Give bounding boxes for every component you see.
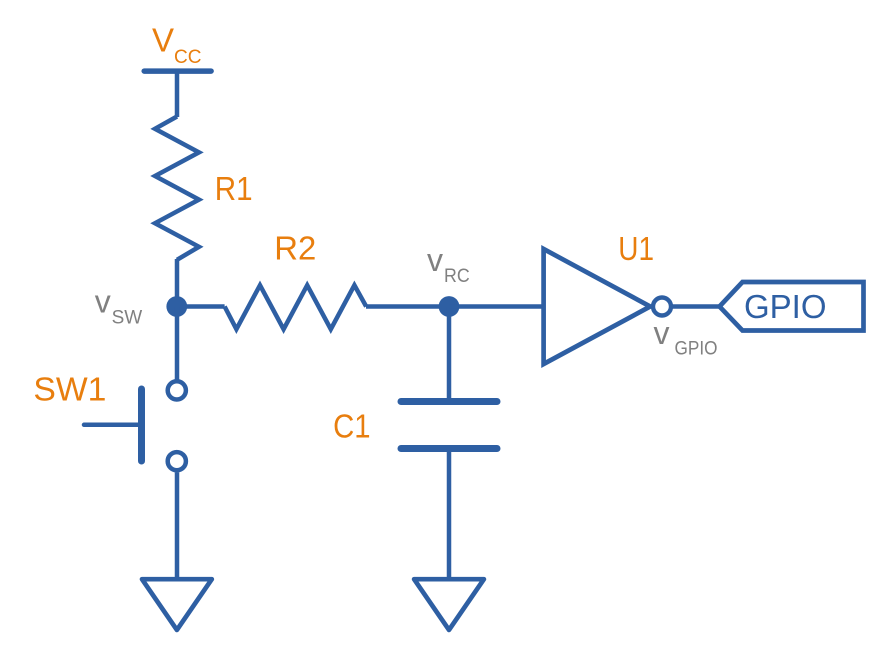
svg-text:U1: U1 (618, 230, 654, 267)
buffer U1 output bubble (653, 298, 671, 316)
node v_RC junction dot (439, 296, 460, 317)
resistor R1 (155, 117, 199, 260)
svg-text:RC: RC (444, 266, 470, 287)
label node v_GPIO (654, 315, 718, 360)
wire R1 to node v_SW (175, 259, 180, 307)
label node v_RC (427, 242, 470, 287)
wire capacitor C1 to ground (447, 448, 452, 578)
wire switch SW1 to ground (175, 473, 180, 579)
switch SW1 actuator bar (138, 389, 145, 461)
svg-text:v: v (95, 284, 111, 320)
wire node v_SW to switch SW1 (175, 307, 180, 380)
label Vcc (152, 21, 201, 68)
switch SW1 bottom contact (168, 452, 186, 470)
switch SW1 stem (84, 423, 138, 428)
capacitor C1 top plate (401, 398, 497, 405)
svg-text:R2: R2 (274, 229, 316, 266)
svg-text:v: v (654, 315, 670, 351)
node v_SW junction dot (166, 296, 187, 317)
svg-text:SW1: SW1 (33, 371, 106, 408)
svg-text:V: V (152, 21, 174, 58)
wire Vcc to R1 (175, 71, 180, 117)
svg-text:C1: C1 (333, 407, 370, 444)
capacitor C1 bottom plate (401, 445, 497, 452)
wire R2 to node v_RC (366, 304, 449, 309)
GPIO flag (720, 282, 864, 331)
svg-text:R1: R1 (215, 170, 253, 207)
ground under C1 (414, 579, 484, 630)
label node v_SW (95, 284, 142, 329)
svg-text:GPIO: GPIO (744, 288, 827, 325)
wire node v_RC to buffer U1 (449, 304, 547, 309)
wire buffer U1 to GPIO flag (673, 304, 720, 309)
op-amp buffer U1 triangle (544, 249, 651, 364)
svg-text:CC: CC (174, 47, 201, 68)
wire node v_SW to R2 (177, 304, 225, 309)
svg-text:GPIO: GPIO (675, 339, 718, 360)
wire node v_RC to capacitor C1 (447, 307, 452, 401)
power Vcc bar (144, 68, 211, 74)
svg-text:SW: SW (112, 307, 143, 328)
svg-text:v: v (427, 242, 443, 278)
ground under SW1 (142, 579, 212, 630)
resistor R2 (225, 285, 367, 329)
switch SW1 top contact (168, 381, 186, 399)
